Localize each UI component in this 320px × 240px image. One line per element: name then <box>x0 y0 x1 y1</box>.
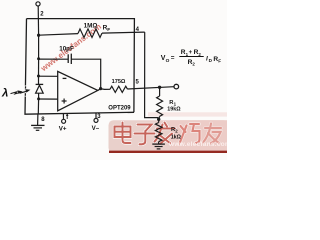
svg-text:=: = <box>171 55 175 62</box>
watermark bottom bar <box>109 112 229 152</box>
svg-text:O: O <box>166 58 170 64</box>
ground R2 <box>152 143 165 145</box>
wire feedback pin4 down to divider node B <box>145 32 159 119</box>
wire cap right lead down to output node <box>71 59 100 88</box>
resistor R1 19kOhm <box>159 87 161 96</box>
output terminal circle <box>174 84 179 89</box>
resistor RF 1MOhm feedback <box>39 34 78 36</box>
wire op-amp output row <box>98 89 110 91</box>
watermark char fa <box>155 123 176 145</box>
formula VO <box>161 49 221 66</box>
wire plus input <box>39 98 58 100</box>
plus sign <box>62 100 67 102</box>
svg-text:V+: V+ <box>59 125 67 132</box>
minus sign <box>63 77 67 79</box>
formula fraction bar <box>179 56 203 58</box>
pin 3 stub V- <box>95 113 97 119</box>
node B divider junction dot <box>157 118 160 121</box>
pin 8 stub <box>37 114 39 126</box>
node output tap junction dot <box>158 86 161 89</box>
resistor 175 Ohm <box>110 86 128 92</box>
watermark char zi <box>135 125 155 145</box>
svg-text:1kΩ: 1kΩ <box>171 134 182 140</box>
wire output to terminal <box>128 87 175 89</box>
capacitor C 10pF <box>67 54 69 63</box>
wire plus node to bottom border <box>37 99 39 114</box>
node plus-input junction dot <box>37 97 40 100</box>
wire minus node down to photodiode <box>38 76 40 85</box>
svg-text:+: + <box>189 50 193 56</box>
node cap junction dot <box>37 57 40 60</box>
svg-text:F: F <box>218 58 221 63</box>
node A junction dot (inverting input node) <box>37 34 40 37</box>
svg-text:V–: V– <box>92 125 100 132</box>
terminal V- circle <box>94 118 98 122</box>
resistor R2 1kOhm <box>158 119 160 122</box>
wire terminal2 to node A <box>37 6 39 35</box>
watermark char shao (faded) <box>180 124 200 144</box>
pin V+ stub <box>62 113 64 119</box>
wire diode anode to plus node <box>38 93 40 99</box>
watermark char dian <box>115 123 131 144</box>
photodiode D1 <box>36 83 44 85</box>
svg-text:10pF: 10pF <box>59 45 74 52</box>
wire cap left lead <box>39 58 69 60</box>
watermark char you (faded) <box>203 124 221 144</box>
svg-text:www.elecfans.com: www.elecfans.com <box>168 141 227 148</box>
svg-text:19kΩ: 19kΩ <box>167 106 181 112</box>
IC package outline OPT209 box <box>27 19 135 113</box>
terminal 2 circle <box>36 2 40 6</box>
node output junction dot <box>99 87 102 90</box>
svg-text:1MΩ: 1MΩ <box>84 22 98 29</box>
svg-text:F: F <box>107 27 110 33</box>
V+ current arrow <box>66 114 68 119</box>
op-amp U1 <box>58 71 98 110</box>
light arrows into photodiode <box>11 92 20 94</box>
svg-text:OPT209: OPT209 <box>108 105 131 111</box>
svg-text:175Ω: 175Ω <box>112 79 126 85</box>
wire minus input <box>38 59 40 76</box>
wire node A down to cap node <box>38 35 40 59</box>
left border gap dashes (light entry) <box>25 86 27 97</box>
svg-text:λ: λ <box>1 88 8 100</box>
ground pin8 <box>31 124 44 126</box>
terminal V+ circle <box>62 119 66 123</box>
